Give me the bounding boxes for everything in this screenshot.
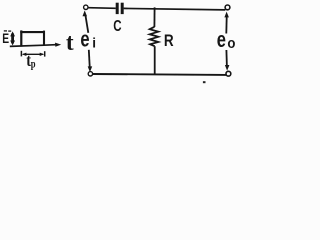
svg-text:p: p	[31, 58, 36, 70]
svg-text:o: o	[227, 34, 235, 51]
svg-text:e: e	[80, 27, 89, 52]
svg-text:i: i	[92, 35, 96, 50]
svg-text:e: e	[217, 28, 226, 53]
svg-text:E: E	[2, 31, 9, 47]
svg-text:R: R	[164, 32, 174, 51]
svg-text:C: C	[113, 16, 121, 34]
svg-text:t: t	[66, 29, 74, 56]
